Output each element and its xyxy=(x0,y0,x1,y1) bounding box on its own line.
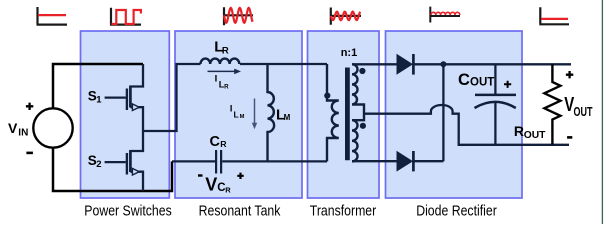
svg-text:I: I xyxy=(215,74,218,85)
transistor S2 xyxy=(105,131,143,191)
waveform icon: DC output xyxy=(539,7,569,24)
terminal - of VIN xyxy=(26,152,33,155)
transformer secondary top winding xyxy=(352,64,364,120)
label LR xyxy=(214,39,229,57)
arrow ILR xyxy=(208,69,242,75)
terminal - of VOUT xyxy=(567,136,572,139)
svg-text:M: M xyxy=(284,113,291,122)
block box: Diode Rectifier xyxy=(386,31,523,198)
diode D2 xyxy=(397,151,414,172)
transformer primary winding xyxy=(327,64,339,161)
wire: VIN- bottom rail to CR return xyxy=(53,148,172,191)
svg-text:Transformer: Transformer xyxy=(310,202,377,218)
terminal + of VIN xyxy=(26,103,33,110)
label VIN xyxy=(8,120,28,139)
arrow on S1 source xyxy=(132,104,139,111)
terminal + of COUT xyxy=(504,81,511,88)
label S2 xyxy=(88,153,102,170)
wire: D1 cathode to + output rail xyxy=(413,63,571,65)
block box: Resonant Tank xyxy=(175,31,302,198)
svg-text:V: V xyxy=(8,120,18,136)
label LM xyxy=(276,106,291,123)
svg-text:R: R xyxy=(514,123,524,139)
wire: tank top rail to transformer primary xyxy=(240,63,327,65)
svg-text:n:1: n:1 xyxy=(341,47,358,59)
waveform icon: square wave xyxy=(110,8,141,25)
block box: Power Switches xyxy=(81,31,170,198)
node: rectifier output junction xyxy=(440,61,446,67)
wire: D2 to riser xyxy=(413,160,443,162)
svg-text:IN: IN xyxy=(18,128,28,139)
svg-text:M: M xyxy=(240,114,245,120)
arrow on S2 source xyxy=(132,168,139,175)
dot: secondary bottom polarity xyxy=(360,123,366,129)
wire: D2 cathode riser to output node xyxy=(442,64,444,161)
resistor ROUT xyxy=(544,64,560,144)
label CR xyxy=(210,134,228,150)
wire: secondary top to diode D1 xyxy=(352,63,397,65)
label S1 xyxy=(88,89,102,106)
svg-text:1: 1 xyxy=(96,95,102,106)
dot: secondary top polarity xyxy=(359,68,365,74)
waveform icon: resonant tank sine xyxy=(223,7,253,25)
svg-text:V: V xyxy=(205,175,217,195)
transformer secondary bottom winding xyxy=(352,120,358,161)
label VCR with polarity xyxy=(198,173,244,195)
wire: half-bridge midpoint to tank input xyxy=(143,64,201,131)
waveform icon: rectified ripple xyxy=(429,7,460,23)
label COUT xyxy=(458,71,494,89)
inductor LR xyxy=(201,59,240,64)
svg-text:2: 2 xyxy=(96,159,101,170)
label ILR xyxy=(215,74,230,91)
block box: Transformer xyxy=(308,31,380,198)
svg-text:R: R xyxy=(220,139,227,149)
wire: secondary bottom to diode D2 xyxy=(352,160,397,162)
svg-text:Diode Rectifier: Diode Rectifier xyxy=(416,202,497,218)
svg-text:R: R xyxy=(225,185,231,194)
wire: center tap return rail with hop over riser xyxy=(364,105,569,145)
dot: primary polarity xyxy=(324,93,330,99)
svg-text:C: C xyxy=(210,134,221,150)
label ROUT xyxy=(514,123,546,141)
arrow ILM xyxy=(252,99,257,130)
svg-text:C: C xyxy=(458,71,470,89)
svg-text:Power Switches: Power Switches xyxy=(84,202,172,218)
waveform icon: DC input xyxy=(37,7,68,25)
svg-text:OUT: OUT xyxy=(574,106,593,120)
waveform icon: scaled sine xyxy=(330,8,361,25)
svg-text:OUT: OUT xyxy=(524,130,546,141)
svg-text:R: R xyxy=(224,84,229,91)
diode D1 xyxy=(397,54,414,75)
terminal + of VOUT xyxy=(566,71,573,78)
wire: VIN+ to S1 drain xyxy=(53,64,143,108)
svg-text:I: I xyxy=(230,104,233,114)
svg-text:R: R xyxy=(222,45,229,56)
capacitor CR xyxy=(216,150,221,174)
label ILM xyxy=(230,104,245,120)
transformer core xyxy=(345,68,350,161)
capacitor COUT xyxy=(475,64,517,144)
label VOUT xyxy=(564,93,593,120)
wire: tank bottom rail right of CR xyxy=(222,160,327,162)
inductor LM xyxy=(268,64,275,161)
svg-text:OUT: OUT xyxy=(470,77,494,89)
wire: tank bottom rail left of CR xyxy=(172,160,215,162)
svg-text:Resonant Tank: Resonant Tank xyxy=(199,202,281,218)
page frame edge xyxy=(601,0,603,224)
svg-text:L: L xyxy=(234,109,239,119)
transistor S1 xyxy=(105,64,143,131)
source VIN xyxy=(33,108,72,147)
